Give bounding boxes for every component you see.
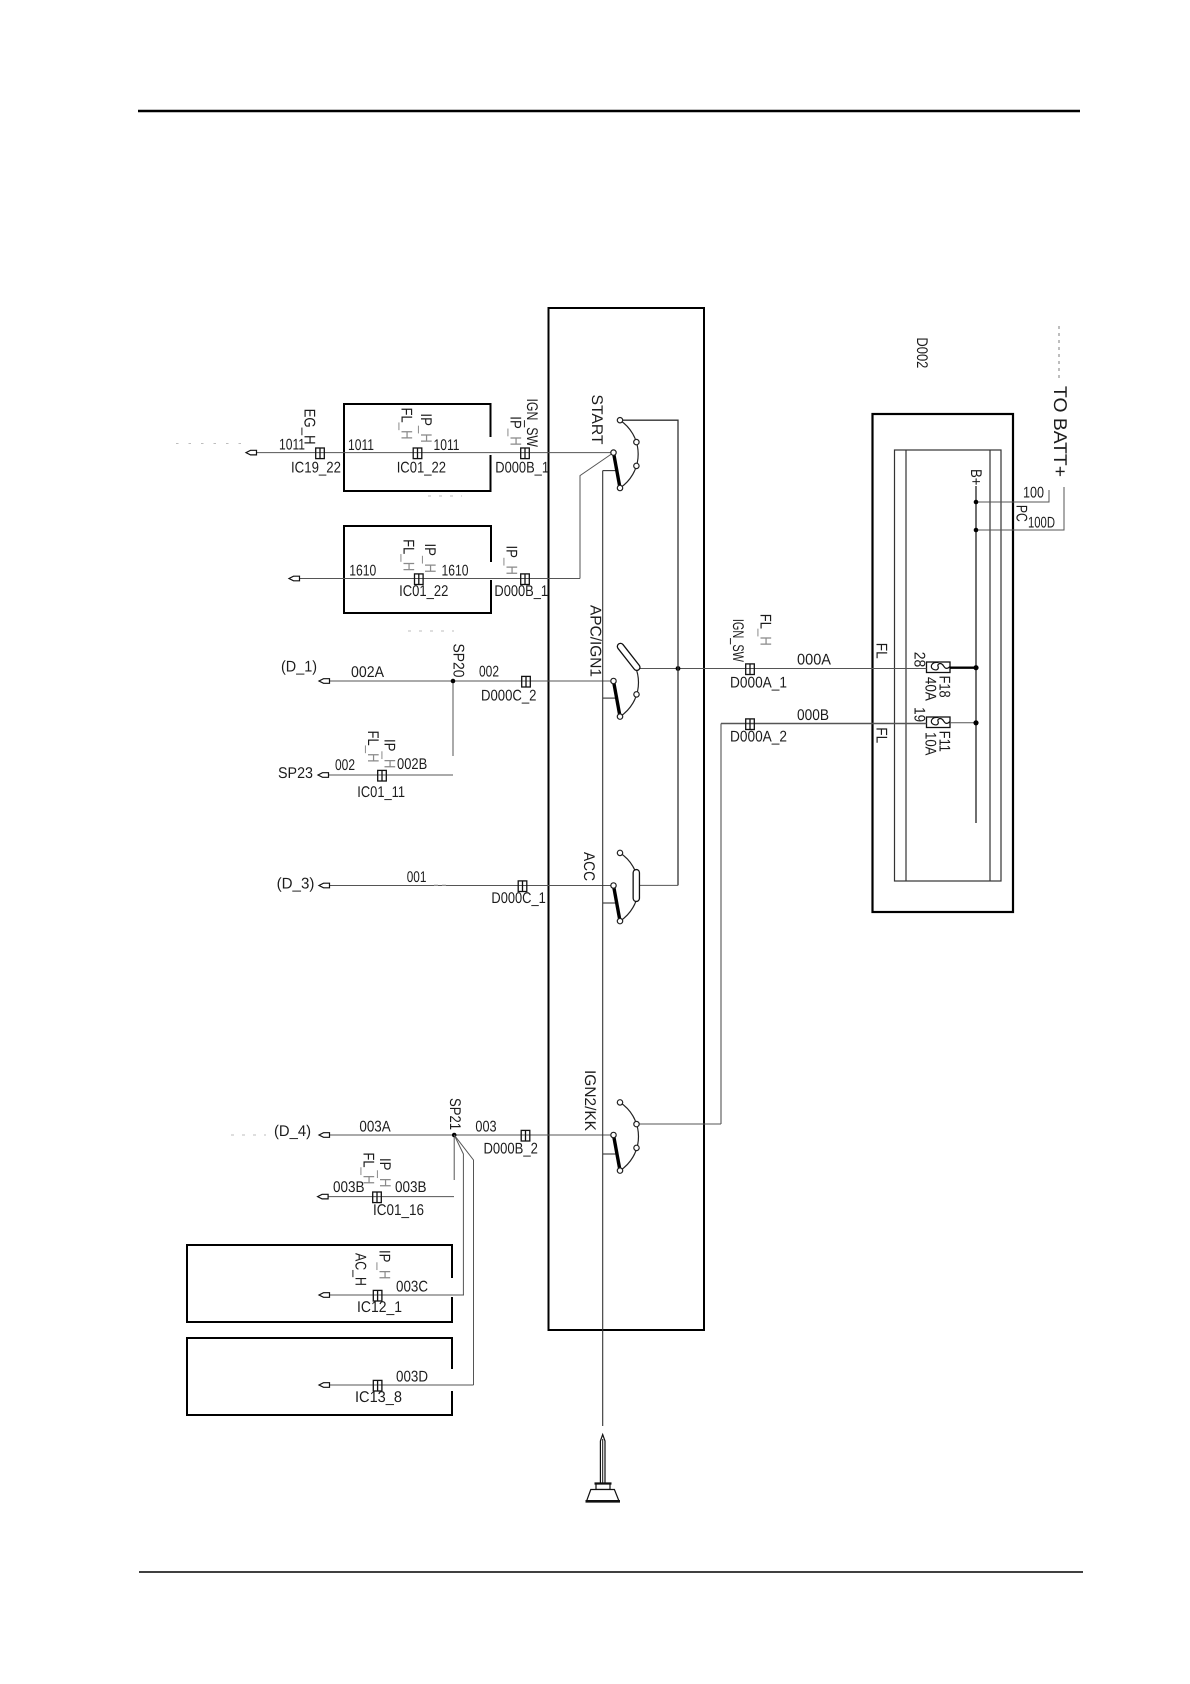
svg-text:B+: B+ [967,469,984,486]
svg-text:1011: 1011 [348,437,374,454]
svg-text:002: 002 [335,757,355,774]
svg-text:IC01_22: IC01_22 [399,583,448,600]
svg-text:003C: 003C [396,1279,428,1296]
svg-text:IC12_1: IC12_1 [357,1299,402,1316]
svg-text:IP: IP [507,416,524,429]
svg-text:IC01_11: IC01_11 [357,784,405,801]
svg-text:FL: FL [872,727,889,743]
svg-text:IC01_16: IC01_16 [373,1202,424,1219]
svg-text:_H: _H [381,751,398,769]
svg-text:_H: _H [507,428,524,446]
svg-text:_H: _H [421,555,438,573]
svg-text:1610: 1610 [349,563,376,580]
svg-text:D000B_1: D000B_1 [494,583,548,600]
svg-text:IGN_SW: IGN_SW [729,619,746,662]
svg-text:D000A_1: D000A_1 [730,675,787,692]
svg-text:IGN2/KK: IGN2/KK [581,1070,598,1132]
svg-text:FL: FL [360,1153,377,1168]
svg-text:003B: 003B [395,1179,427,1196]
svg-text:IP: IP [376,1250,393,1263]
svg-text:40A: 40A [922,677,939,702]
svg-text:FL: FL [400,539,417,554]
svg-text:003: 003 [475,1119,496,1136]
svg-text:FL: FL [872,643,889,659]
svg-text:100: 100 [1023,485,1044,502]
svg-text:APC/IGN1: APC/IGN1 [587,605,604,677]
svg-text:ACC: ACC [580,852,597,881]
svg-text:SP23: SP23 [278,765,313,782]
svg-text:PC: PC [1013,505,1030,522]
svg-text:19: 19 [910,707,927,722]
svg-text:IP: IP [417,413,434,426]
svg-text:000A: 000A [797,652,832,669]
svg-text:D000B_1: D000B_1 [495,459,549,476]
svg-text:(D_3): (D_3) [277,876,315,893]
svg-text:IP: IP [421,544,438,557]
svg-text:000B: 000B [797,707,829,724]
svg-text:IGN_SW: IGN_SW [523,399,540,448]
svg-text:D000B_2: D000B_2 [484,1141,538,1158]
svg-text:SP20: SP20 [450,644,467,678]
svg-text:IC01_22: IC01_22 [397,459,446,476]
svg-text:_H: _H [503,557,520,575]
svg-text:FL: FL [364,731,381,746]
svg-text:IP: IP [503,546,520,559]
svg-text:FL: FL [757,614,774,629]
svg-text:002A: 002A [351,664,385,681]
svg-text:IP: IP [381,739,398,752]
svg-text:FL: FL [398,408,415,423]
svg-text:TO BATT+: TO BATT+ [1050,386,1071,477]
svg-text:(D_1): (D_1) [281,659,317,676]
svg-text:_H: _H [757,628,774,646]
svg-text:1610: 1610 [442,563,469,580]
svg-text:001: 001 [407,869,427,886]
svg-text:10A: 10A [922,732,939,756]
svg-text:D000A_2: D000A_2 [730,729,787,746]
svg-text:1011: 1011 [434,437,460,454]
svg-text:002: 002 [479,664,499,681]
svg-text:START: START [588,395,605,446]
svg-text:003A: 003A [359,1119,391,1136]
svg-text:(D_4): (D_4) [274,1123,311,1140]
svg-text:002B: 002B [397,756,427,773]
svg-text:SP21: SP21 [446,1098,463,1130]
svg-text:IC19_22: IC19_22 [291,459,341,476]
svg-text:_H: _H [400,553,417,571]
svg-text:_H: _H [360,1167,377,1185]
svg-text:IP: IP [376,1158,393,1171]
svg-text:D000C_1: D000C_1 [491,890,545,907]
svg-text:_H: _H [364,745,381,763]
svg-text:AC_H: AC_H [352,1253,369,1286]
svg-text:_H: _H [376,1262,393,1280]
svg-text:_H: _H [398,422,415,440]
svg-text:D002: D002 [913,337,930,368]
svg-text:100D: 100D [1028,515,1055,532]
svg-text:EG_H: EG_H [301,409,318,445]
svg-text:_H: _H [417,425,434,443]
svg-text:28: 28 [910,652,927,668]
svg-text:IC13_8: IC13_8 [355,1389,402,1406]
svg-text:D000C_2: D000C_2 [481,688,537,705]
svg-text:003D: 003D [396,1369,428,1386]
svg-text:_H: _H [376,1170,393,1188]
